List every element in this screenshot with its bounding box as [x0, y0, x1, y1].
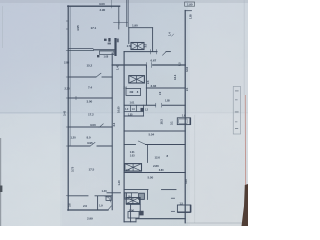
wall y189.5 segment a [124, 189, 148, 191]
svg-text:2.88: 2.88 [64, 61, 70, 65]
door leaf y51.5 east [163, 52, 167, 55]
paper background [0, 0, 248, 226]
vestibule thick wall [114, 38, 116, 56]
entry step dark square [97, 55, 99, 57]
svg-text:2.0: 2.0 [83, 204, 87, 208]
stamp strip right [233, 87, 240, 135]
svg-text:1.90: 1.90 [187, 3, 193, 7]
photo edge left [0, 138, 1, 226]
balcony 2 [177, 205, 190, 213]
radiator stub b [171, 210, 174, 212]
svg-text:1.90: 1.90 [132, 24, 138, 28]
paper edge pink line right [244, 95, 246, 186]
svg-text:18.3: 18.3 [159, 119, 163, 125]
svg-text:1.05: 1.05 [128, 113, 133, 116]
svg-text:1.40: 1.40 [102, 189, 108, 193]
top-right stub [185, 10, 191, 12]
wc bottom wall y116 [124, 115, 144, 117]
bottom small box [128, 212, 139, 219]
svg-text:8.5: 8.5 [178, 62, 182, 66]
svg-text:3.1: 3.1 [170, 121, 174, 125]
svg-text:3.10: 3.10 [185, 66, 189, 72]
small room below stair2 [126, 88, 141, 95]
door leaf room5/room6 [90, 142, 95, 146]
right column lighter [188, 0, 248, 226]
dark box bottom-left-room [106, 197, 111, 201]
wall room2/room3 [68, 76, 96, 78]
porch outline box [100, 51, 114, 55]
wall x147.5 mid [147, 145, 149, 163]
small room bottom right-block [125, 193, 132, 199]
paper crease mid-right [193, 115, 196, 223]
photo background dark right-bottom edge [242, 184, 249, 226]
svg-text:3.00: 3.00 [99, 2, 105, 6]
svg-text:1.40: 1.40 [117, 180, 121, 186]
svg-text:3.6: 3.6 [68, 203, 72, 207]
vertical x130.5 bottom [130, 205, 132, 222]
svg-text:5.50: 5.50 [148, 176, 154, 180]
svg-text:3.00: 3.00 [87, 100, 93, 104]
svg-text:3.0: 3.0 [144, 43, 148, 47]
wall y51.5 east segment [166, 51, 170, 53]
corridor dimension tick line top [114, 22, 128, 24]
svg-text:2.80: 2.80 [153, 164, 159, 168]
svg-text:15.2: 15.2 [87, 64, 93, 68]
vestibule pier dark [104, 38, 119, 44]
svg-text:3.00: 3.00 [90, 123, 96, 127]
door leaf room2/room3 [96, 73, 101, 77]
radiator stub a [171, 197, 174, 199]
svg-text:1.40: 1.40 [116, 64, 120, 70]
svg-text:1.90: 1.90 [129, 208, 135, 212]
svg-text:1.20: 1.20 [71, 136, 77, 140]
stair box 3 [126, 198, 139, 204]
svg-text:1.01: 1.01 [130, 150, 135, 154]
svg-text:2.6: 2.6 [123, 86, 127, 90]
svg-text:3.80: 3.80 [159, 168, 164, 172]
svg-text:5.54: 5.54 [149, 132, 155, 136]
dark box bottom-mid [139, 211, 143, 216]
wall room5/room6 [68, 145, 90, 147]
wall small bottom-left room [97, 196, 99, 210]
wall between room1 and room2 (double) [68, 47, 93, 49]
photo edge left notch [0, 186, 2, 193]
paper crease top-left [1, 6, 4, 48]
svg-text:4.95: 4.95 [76, 25, 80, 31]
svg-text:1.9: 1.9 [182, 114, 186, 118]
stair box 1 [131, 43, 144, 50]
door leaf bottom-left block [108, 206, 111, 210]
dim tick NE [172, 34, 174, 36]
outer wall right [184, 11, 186, 223]
stair box 4 [125, 164, 142, 172]
tick top corridor [111, 0, 113, 8]
svg-text:3.45: 3.45 [63, 110, 67, 116]
paper mottle texture [0, 0, 248, 226]
svg-text:12.6: 12.6 [155, 156, 161, 160]
svg-text:2.99: 2.99 [87, 217, 93, 221]
entry wall y192.8 segment b [124, 192, 137, 194]
stair3 shaft left [126, 193, 128, 198]
svg-text:2.1: 2.1 [185, 87, 189, 91]
door ticks y65 [146, 63, 148, 68]
wc partition vertical1 [130, 105, 132, 111]
wall below stair1 [124, 51, 157, 53]
wall y172.5 [124, 172, 185, 174]
stair box 2 [129, 76, 145, 83]
wall right of room1 [118, 6, 120, 29]
top edge shade [0, 0, 248, 3]
svg-text:1.05: 1.05 [126, 195, 131, 199]
wc partition vertical3 [143, 105, 145, 116]
svg-text:2.6: 2.6 [127, 44, 131, 48]
wall x146.5 [145, 65, 147, 105]
wall room4/room5 [68, 126, 112, 128]
stamp strip marks [235, 91, 239, 129]
door leaf room4/room5 [99, 124, 103, 128]
stair room left wall [128, 28, 130, 44]
svg-text:1.85: 1.85 [165, 99, 170, 103]
svg-text:8.0: 8.0 [87, 136, 91, 140]
main cross wall y65 [112, 64, 145, 66]
bottom wall right y218.7 [136, 218, 185, 220]
wall ticks left [66, 50, 68, 52]
upper half shade [0, 0, 248, 113]
outer wall bottom-left [68, 209, 108, 211]
svg-text:2.20: 2.20 [65, 87, 71, 91]
svg-text:1.01: 1.01 [130, 101, 135, 105]
right block left wall [123, 52, 125, 222]
wall y105.2 [124, 104, 155, 106]
paper fold bottom right [185, 222, 245, 225]
paper crease right upper [243, 0, 246, 95]
svg-text:1.4: 1.4 [168, 32, 172, 36]
svg-text:3.10: 3.10 [184, 179, 188, 184]
svg-text:17.2: 17.2 [88, 113, 94, 117]
svg-text:3.95: 3.95 [87, 141, 93, 145]
svg-text:17.5: 17.5 [89, 168, 95, 172]
wall right of left block [111, 53, 113, 210]
stair room right wall [152, 28, 154, 52]
svg-text:2.90: 2.90 [100, 8, 106, 12]
outer wall top [68, 5, 120, 7]
svg-text:2.2: 2.2 [112, 122, 116, 126]
svg-text:1.41: 1.41 [126, 168, 131, 172]
wc partition horizontal [124, 110, 144, 112]
wall y131 [124, 130, 185, 132]
svg-text:14.1: 14.1 [173, 74, 177, 80]
bottom wall corridor y221.8 [124, 221, 136, 223]
wall y189.5 segment b [162, 189, 177, 191]
door leaf y144.5 [138, 141, 145, 144]
paper fold horizontal left [0, 111, 68, 114]
plan column soft shade [60, 0, 190, 226]
svg-text:7.4: 7.4 [88, 86, 92, 90]
svg-text:1.03: 1.03 [130, 153, 135, 157]
wall y88 kitchen [146, 87, 185, 89]
wc partition vertical2 [136, 105, 138, 111]
wall x147.5 bottom [147, 190, 149, 200]
balcony 1 [177, 118, 190, 125]
svg-text:1.5: 1.5 [180, 201, 184, 205]
wall room6 bottom [68, 195, 88, 197]
top right label box [185, 2, 195, 7]
svg-text:1.08: 1.08 [104, 55, 109, 59]
dark closet bottom right-block [139, 193, 145, 199]
svg-text:6.67: 6.67 [151, 59, 157, 63]
entry wall y192.8 segment a [107, 192, 120, 194]
stair room top wall [129, 27, 153, 29]
door arc bottom-left room [105, 196, 111, 202]
wall y49.8 east [93, 49, 115, 51]
outer wall left inner line [69, 6, 71, 146]
svg-text:17.1: 17.1 [91, 26, 97, 30]
svg-text:1.9: 1.9 [99, 204, 103, 208]
line under stair3 [126, 203, 140, 205]
vertical x142.8 bottom [139, 198, 141, 212]
wall y144.5 [124, 144, 135, 146]
outer wall left [67, 6, 69, 210]
door tick room3/room4 [75, 96, 77, 99]
svg-text:3.73: 3.73 [71, 166, 75, 172]
svg-text:1.85: 1.85 [189, 14, 193, 19]
window ticks left wall room1 [66, 20, 68, 22]
wall stair shaft top (double) [125, 0, 127, 27]
lower-left margin lighter [0, 114, 62, 226]
wall room3/room4 [68, 97, 112, 99]
svg-text:16.60: 16.60 [117, 106, 121, 113]
wc corner dark blob [141, 108, 143, 111]
svg-text:3.03: 3.03 [151, 84, 157, 88]
